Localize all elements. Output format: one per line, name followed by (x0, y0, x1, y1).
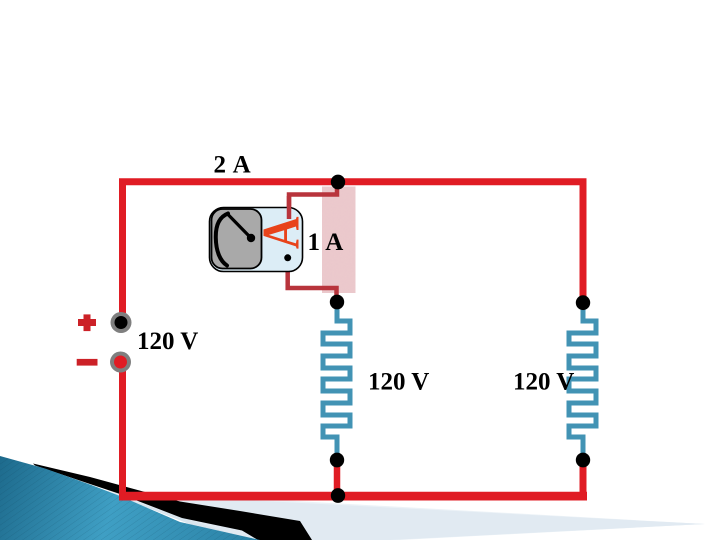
svg-text:120 V: 120 V (513, 369, 574, 396)
svg-text:2A: 2A (214, 152, 251, 179)
svg-text:120 V: 120 V (368, 369, 429, 396)
svg-text:A: A (251, 216, 310, 249)
svg-text:1A: 1A (308, 229, 344, 256)
svg-text:120 V: 120 V (137, 328, 198, 355)
